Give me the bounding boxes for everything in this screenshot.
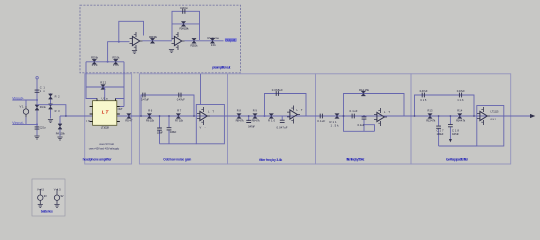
svg-text:R13 4.7k: R13 4.7k xyxy=(426,118,436,122)
wire opamp B out xyxy=(185,40,224,42)
svg-text:V-4.5: V-4.5 xyxy=(54,188,62,192)
wire chip top pin xyxy=(105,87,124,101)
capacitor C11 xyxy=(320,114,322,119)
capacitor C18 branch xyxy=(449,116,451,139)
svg-text:0.47uF: 0.47uF xyxy=(452,132,459,136)
block box 1: headphone amplifier xyxy=(85,74,132,164)
wire op-amp A input xyxy=(108,42,130,62)
svg-text:9V: 9V xyxy=(44,194,47,198)
junction at x=364 on rail xyxy=(363,115,365,117)
resistor R7 xyxy=(176,114,180,119)
op-amp U3 xyxy=(172,32,185,50)
svg-text:0.1uF: 0.1uF xyxy=(350,109,358,113)
feedback wire loop xyxy=(119,21,144,41)
svg-text:1n: 1n xyxy=(40,89,46,93)
feedback wire rect xyxy=(477,106,504,147)
feedback network rect xyxy=(172,11,200,40)
svg-text:out: out xyxy=(491,117,496,121)
svg-text:R13: R13 xyxy=(428,108,434,112)
svg-text:low freq specific filter: low freq specific filter xyxy=(446,157,469,161)
svg-text:R10: R10 xyxy=(268,118,275,122)
svg-text:9V: 9V xyxy=(61,194,64,198)
svg-text:preamplifier out: preamplifier out xyxy=(212,66,231,70)
block box 2: Odd low noise gain xyxy=(139,74,227,164)
capacitor C8 branch xyxy=(248,116,250,121)
junction at x=194 on rail xyxy=(193,115,195,117)
svg-text:LT1028: LT1028 xyxy=(101,125,109,129)
capacitor C5 xyxy=(179,93,181,98)
resistor R25 xyxy=(192,38,196,43)
svg-text:R8 4.7k: R8 4.7k xyxy=(236,118,245,122)
svg-text:R6: R6 xyxy=(148,108,153,112)
svg-text:R14: R14 xyxy=(457,108,463,112)
voltage source V1 xyxy=(23,106,28,117)
svg-text:LT1115: LT1115 xyxy=(491,110,500,114)
svg-text:R7 10k: R7 10k xyxy=(175,118,184,122)
capacitor C15 xyxy=(422,93,424,98)
resistor R11 xyxy=(335,114,339,119)
svg-text:batteries: batteries xyxy=(41,209,53,213)
battery enclosure box xyxy=(32,179,65,216)
capacitor C16 xyxy=(459,93,461,98)
resistor R4 to ground branch xyxy=(59,116,61,136)
feedback wire rect xyxy=(265,94,307,117)
svg-text:R25 1k: R25 1k xyxy=(191,43,199,47)
svg-text:uses +4.5V and -4.5V rail supp: uses +4.5V and -4.5V rail supply xyxy=(89,147,120,151)
preamplifier dashed enclosure box xyxy=(80,5,241,73)
svg-text:0.47uF: 0.47uF xyxy=(248,124,255,128)
wire bottom input xyxy=(12,123,37,125)
resistor R3 divider xyxy=(49,104,53,109)
resistor R10 xyxy=(269,114,273,119)
svg-text:1.5k: 1.5k xyxy=(331,123,340,127)
wire bottom return xyxy=(439,145,477,147)
svg-text:0.47uF: 0.47uF xyxy=(141,97,149,101)
IC pins top xyxy=(97,98,116,100)
junction at x=141 on rail xyxy=(140,115,142,117)
capacitor C2 xyxy=(35,127,40,129)
wire feedback mid row xyxy=(172,23,200,25)
block box 3 xyxy=(228,74,316,164)
junction at x=159.5 on rail xyxy=(159,115,161,117)
wire left drop to chip xyxy=(86,62,97,99)
svg-text:R22: R22 xyxy=(100,80,106,84)
svg-text:0.47uF: 0.47uF xyxy=(170,130,177,134)
wire top input xyxy=(12,99,37,101)
junction at x=438.6 on rail xyxy=(438,115,440,117)
wire tap to rail xyxy=(37,105,66,116)
resistor R9 xyxy=(253,114,257,119)
svg-text:0.068uF: 0.068uF xyxy=(272,88,283,92)
svg-text:R20 1k: R20 1k xyxy=(91,56,99,60)
net label OutputL xyxy=(225,38,237,41)
op-amp U2 xyxy=(130,32,143,50)
capacitor C4 xyxy=(143,93,145,98)
svg-text:C2 1n: C2 1n xyxy=(40,125,47,129)
svg-text:10k: 10k xyxy=(113,63,120,67)
svg-text:10k: 10k xyxy=(211,43,217,47)
junction at x=169 on rail xyxy=(168,115,170,117)
resistor R14 xyxy=(458,114,462,119)
wire source vertical xyxy=(25,100,27,124)
capacitor C17 branch xyxy=(438,116,440,146)
battery V2 xyxy=(39,189,41,195)
junction node dots xyxy=(36,99,38,101)
resistor R8 xyxy=(237,114,241,119)
svg-text:headphone amplifier: headphone amplifier xyxy=(83,158,113,162)
svg-text:Rvolume: Rvolume xyxy=(208,36,220,40)
svg-text:R5 47: R5 47 xyxy=(125,118,132,122)
svg-text:0.47uF: 0.47uF xyxy=(177,97,185,101)
op-amp U4 xyxy=(197,107,210,125)
resistor R24 xyxy=(181,22,185,27)
ground input column xyxy=(34,136,39,139)
svg-text:R4 100k: R4 100k xyxy=(56,131,66,135)
svg-text:R3: R3 xyxy=(55,109,61,113)
wire bottom return xyxy=(160,143,197,145)
resistor R26 volume xyxy=(210,38,214,43)
svg-text:100uF: 100uF xyxy=(437,132,444,136)
svg-text:0.047uF: 0.047uF xyxy=(277,126,288,130)
capacitor C9 xyxy=(276,91,278,96)
feedback wire rect xyxy=(196,105,224,144)
block box 4 xyxy=(316,74,412,164)
svg-text:R6 10k: R6 10k xyxy=(146,118,155,122)
block box 5 xyxy=(411,74,511,164)
resistor R13 xyxy=(428,114,432,119)
IC U1 body xyxy=(93,101,117,126)
svg-text:C20 1n: C20 1n xyxy=(180,6,188,10)
junction at x=414.5 on rail xyxy=(414,115,416,117)
ground divider xyxy=(48,120,53,123)
svg-text:OUT: OUT xyxy=(118,107,123,111)
capacitor C14 branch xyxy=(364,116,375,131)
resistor R5 output xyxy=(127,114,131,119)
op-amp U6 xyxy=(374,108,387,126)
IC pins right xyxy=(117,107,120,122)
svg-text:R8: R8 xyxy=(237,108,242,112)
svg-text:R2: R2 xyxy=(55,95,61,99)
svg-text:V1: V1 xyxy=(20,105,24,109)
resistor R1 xyxy=(35,105,39,110)
wire stub top xyxy=(200,74,202,105)
svg-text:U1a: U1a xyxy=(102,97,108,101)
ground op-amp A xyxy=(132,51,137,54)
svg-text:OutputL: OutputL xyxy=(225,38,236,42)
svg-text:R12 15k: R12 15k xyxy=(359,88,370,92)
wire input column xyxy=(36,79,38,136)
ground op-amp B xyxy=(169,50,174,53)
svg-text:100uF: 100uF xyxy=(157,131,163,135)
capacitor C20 xyxy=(183,9,185,14)
svg-text:R14 4.7k: R14 4.7k xyxy=(456,118,466,122)
capacitor C1 xyxy=(35,90,40,92)
resistor R22 xyxy=(101,85,105,90)
resistor R12 xyxy=(361,91,365,96)
resistor R2 divider xyxy=(50,93,52,118)
svg-text:R23 10k: R23 10k xyxy=(149,35,158,39)
resistor R21 xyxy=(114,59,118,64)
svg-text:0.47uF: 0.47uF xyxy=(420,89,428,93)
resistor R6 xyxy=(147,114,151,119)
wire bypass top xyxy=(141,95,194,116)
svg-text:R7: R7 xyxy=(177,108,182,112)
feedback wire rect xyxy=(344,94,405,132)
wire supply pair row xyxy=(86,61,124,63)
main signal rail wire xyxy=(60,115,532,117)
resistor R20 xyxy=(92,59,96,64)
wire bias row xyxy=(86,86,124,88)
capacitor C6 branch xyxy=(159,116,161,144)
svg-text:R1 1k: R1 1k xyxy=(40,105,47,109)
battery V3 xyxy=(56,189,58,195)
svg-text:filter freq by 3.4k: filter freq by 3.4k xyxy=(259,158,282,162)
IC pins left xyxy=(90,107,93,122)
wire right drop to chip xyxy=(120,62,124,107)
svg-text:C15: C15 xyxy=(420,98,427,102)
svg-text:C16: C16 xyxy=(458,98,465,102)
output arrow head xyxy=(530,114,535,118)
svg-text:uses 9V batt: uses 9V batt xyxy=(99,142,114,146)
svg-text:R9: R9 xyxy=(253,108,258,112)
capacitor C13 xyxy=(352,114,354,119)
svg-text:0.1uF: 0.1uF xyxy=(358,123,365,127)
wire opamp A out xyxy=(143,40,173,42)
svg-text:R21 1k: R21 1k xyxy=(112,56,120,60)
svg-text:R9 4.7k: R9 4.7k xyxy=(252,118,261,122)
svg-text:Odd low noise gain: Odd low noise gain xyxy=(163,158,191,162)
wire bypass top xyxy=(415,95,475,116)
junction at x=343.5 on rail xyxy=(343,115,345,117)
capacitor C10 branch xyxy=(281,116,283,120)
junction at x=248.7 on rail xyxy=(248,115,250,117)
junction at x=474 on rail xyxy=(473,115,475,117)
svg-text:R24 100k: R24 100k xyxy=(180,27,190,31)
svg-text:0.47uF: 0.47uF xyxy=(457,89,465,93)
op-amp U5 xyxy=(287,106,300,124)
svg-text:filter freq by 50Hz: filter freq by 50Hz xyxy=(346,157,364,161)
resistor R23 xyxy=(150,38,154,43)
junction at x=450.4 on rail xyxy=(450,115,452,117)
svg-text:0.1uF: 0.1uF xyxy=(317,119,325,123)
node port circle xyxy=(36,77,38,79)
op-amp U7 xyxy=(477,107,490,125)
ground R4 xyxy=(57,137,62,140)
svg-text:10k: 10k xyxy=(92,63,99,67)
svg-text:V+4.5: V+4.5 xyxy=(37,188,45,192)
capacitor C7 branch xyxy=(168,116,170,144)
